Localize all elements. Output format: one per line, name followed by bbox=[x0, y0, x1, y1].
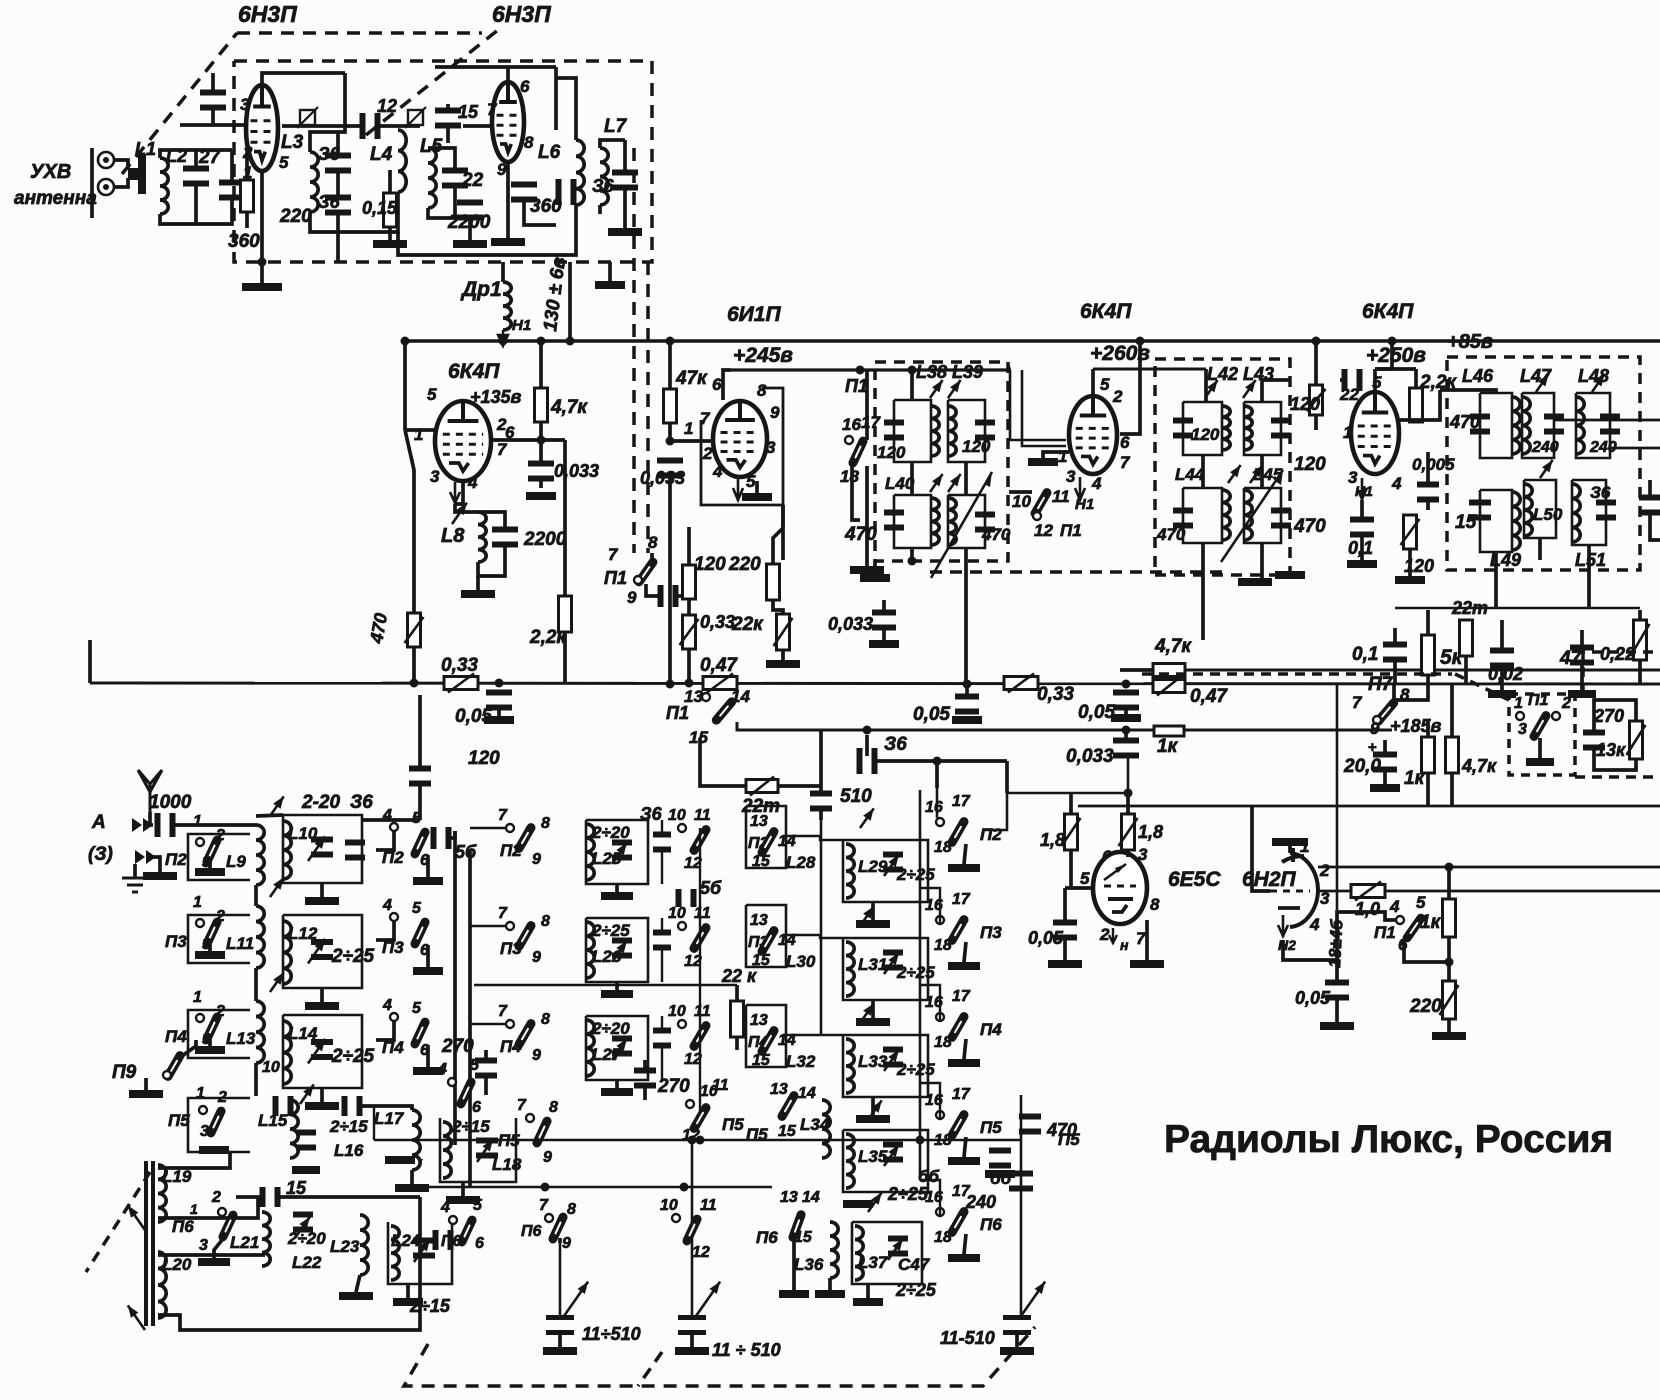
switch r6 group1 bbox=[462, 1220, 472, 1242]
wire V4 pin5 gnd bbox=[755, 481, 759, 493]
wire sw6 down bbox=[1404, 940, 1449, 962]
svg-text:20,0: 20,0 bbox=[1343, 756, 1381, 777]
trimmer L42 bbox=[1205, 380, 1218, 398]
svg-text:L23: L23 bbox=[330, 1237, 360, 1256]
svg-text:1: 1 bbox=[243, 163, 252, 182]
svg-text:15: 15 bbox=[752, 1052, 771, 1069]
svg-text:8: 8 bbox=[541, 913, 550, 930]
tank C5 loop bbox=[1524, 480, 1556, 538]
junction 0033 bus bbox=[666, 680, 675, 689]
ground V5 pin1 bbox=[1028, 458, 1058, 466]
trimmer L39 bbox=[948, 380, 961, 398]
trimmer capacitor C47 bbox=[888, 1236, 908, 1257]
wire 47k det up bbox=[1450, 684, 1454, 737]
screen trimmer square 2 bbox=[408, 110, 423, 125]
svg-text:16: 16 bbox=[842, 415, 861, 434]
capacitor L2 tune bbox=[183, 166, 209, 187]
svg-text:8: 8 bbox=[567, 1201, 576, 1218]
svg-text:1: 1 bbox=[1343, 423, 1352, 442]
wire det out2 bbox=[1594, 700, 1636, 735]
switch r4 colA bbox=[461, 1082, 471, 1104]
wire L7cap2 bbox=[623, 185, 627, 228]
resistor 0,33 a bbox=[444, 674, 478, 693]
svg-text:0,02: 0,02 bbox=[1488, 664, 1523, 684]
trimmer capacitor L35 bbox=[883, 1142, 903, 1163]
contact P1d 2 bbox=[1552, 712, 1560, 720]
junction agc bbox=[933, 757, 942, 766]
contact 4 П3 bbox=[390, 913, 398, 921]
trimmer arrow C47 bbox=[888, 1239, 903, 1260]
wire 120 v6 d bbox=[1408, 549, 1412, 576]
wire 22k gnd bbox=[781, 650, 785, 660]
wire tankA4 down long bbox=[964, 548, 968, 684]
trimmer L13 bbox=[270, 972, 284, 992]
wire boxC exit right 1 bbox=[1554, 419, 1660, 422]
svg-text:0,05: 0,05 bbox=[1028, 928, 1064, 948]
switch П4 bbox=[207, 1017, 217, 1039]
svg-text:1: 1 bbox=[193, 989, 202, 1006]
capacitor 12 coupling bbox=[360, 113, 381, 139]
svg-text:П1: П1 bbox=[1528, 692, 1549, 709]
capacitor tank C6 bbox=[1596, 500, 1616, 521]
capacitor 0,05 a bbox=[486, 690, 512, 711]
magic eye arrow bbox=[1104, 864, 1126, 880]
wire col3 vertical bus bbox=[820, 812, 823, 1035]
svg-text:2÷20: 2÷20 bbox=[591, 1019, 630, 1038]
svg-text:120: 120 bbox=[1290, 394, 1320, 414]
ground osc cap bbox=[869, 640, 899, 648]
svg-text:13: 13 bbox=[750, 912, 768, 929]
svg-text:2-20: 2-20 bbox=[301, 792, 340, 813]
svg-text:антенна: антенна bbox=[14, 188, 97, 209]
svg-text:0,05: 0,05 bbox=[1295, 988, 1331, 1008]
ground c4 П3 bbox=[948, 962, 980, 970]
trimmer capacitor L22 bbox=[293, 1212, 313, 1233]
ground 220 bbox=[1432, 1032, 1466, 1040]
svg-text:17: 17 bbox=[952, 793, 971, 810]
wire cap27 v2 bbox=[194, 181, 198, 224]
tube V8 cathode bbox=[1278, 906, 1300, 910]
svg-text:15: 15 bbox=[778, 1123, 797, 1140]
svg-text:Др1: Др1 bbox=[460, 278, 502, 301]
svg-text:2÷25: 2÷25 bbox=[331, 1046, 375, 1067]
inductor L25 bbox=[586, 824, 594, 880]
contact10 П4 bbox=[678, 1020, 686, 1028]
capacitor 0,05 V7 bbox=[1053, 920, 1077, 941]
inductor L12 bbox=[283, 921, 291, 984]
junction rail x570 bbox=[566, 337, 575, 346]
wire L51 down bbox=[1587, 545, 1591, 608]
wire V8 top bbox=[1288, 846, 1292, 853]
wire box-tank L28 bbox=[786, 836, 843, 840]
wire c4 gnd П5 bbox=[964, 1137, 966, 1157]
svg-text:470: 470 bbox=[981, 525, 1011, 544]
svg-text:4: 4 bbox=[1091, 474, 1102, 493]
tube V4 6I1P bbox=[713, 401, 767, 477]
wire anode cap low bbox=[211, 106, 215, 125]
wire cap12 to L4 bbox=[380, 124, 420, 128]
svg-text:270: 270 bbox=[441, 1036, 474, 1057]
svg-text:П9: П9 bbox=[112, 1062, 137, 1083]
wire long y867 bbox=[1318, 866, 1660, 869]
capacitor P1a link bbox=[658, 585, 679, 607]
tube V2 6N3P triode b bbox=[492, 82, 524, 162]
svg-text:L7: L7 bbox=[604, 116, 628, 137]
wire dr1 top bbox=[501, 262, 505, 282]
capacitor right L26 bbox=[653, 930, 671, 951]
inductor L39 bbox=[948, 406, 956, 456]
capacitor right L27 bbox=[653, 1028, 671, 1049]
wire 56 link bbox=[446, 831, 455, 838]
inductor L47 bbox=[1522, 397, 1530, 454]
screen trimmer square 1 bbox=[300, 110, 315, 125]
cathode arrow V3 bbox=[450, 482, 460, 504]
svg-text:5: 5 bbox=[470, 1057, 480, 1074]
svg-text:П1: П1 bbox=[666, 703, 689, 723]
wire B4 down gnd bbox=[1260, 543, 1264, 578]
svg-text:L8: L8 bbox=[441, 525, 465, 547]
wire L24 gnd bbox=[406, 1284, 410, 1298]
wire P1a to 120 bbox=[676, 594, 689, 598]
trimmer arrow L18 bbox=[477, 1139, 493, 1162]
ground P6L bbox=[198, 1258, 230, 1266]
wire 47k det down bbox=[1450, 773, 1454, 806]
IF transformer II dashed box bbox=[1155, 359, 1290, 575]
wire sw horizontal bbox=[1009, 490, 1032, 494]
resistor 22k osc bbox=[774, 614, 793, 650]
switch P9 bbox=[168, 1056, 180, 1077]
inductor L2 bbox=[160, 158, 168, 214]
wire cap27 v bbox=[194, 150, 198, 171]
wire capr2 L27 bbox=[661, 1043, 663, 1080]
wire long vertical x920 bbox=[919, 790, 922, 1180]
contact1 P5L bbox=[199, 1106, 207, 1114]
wire V8 pin2 bbox=[1318, 890, 1660, 893]
wire c4 16 up П5 bbox=[920, 1083, 940, 1119]
trimmer arrow L22 bbox=[295, 1217, 310, 1238]
wire V2 down bbox=[554, 67, 558, 130]
svg-text:6К4П: 6К4П bbox=[1362, 300, 1414, 323]
contact P9 bbox=[163, 1071, 171, 1079]
coax b bbox=[1022, 370, 1066, 446]
junction 47k grid bbox=[666, 437, 675, 446]
svg-text:7: 7 bbox=[498, 1003, 508, 1020]
svg-text:2÷20: 2÷20 bbox=[287, 1229, 326, 1248]
wire long y806 bbox=[1078, 805, 1660, 808]
wire L8 top bbox=[455, 504, 478, 512]
svg-text:1,8: 1,8 bbox=[1040, 830, 1065, 850]
coax a bbox=[1010, 370, 1066, 440]
wire V5 pin1 gnd bbox=[1043, 452, 1069, 458]
svg-text:4: 4 bbox=[382, 897, 392, 914]
capacitor 15 C bbox=[1469, 500, 1491, 521]
ground antenna z bbox=[122, 878, 148, 892]
wire sw right up П4 bbox=[376, 1021, 394, 1040]
contact16 П6 bbox=[936, 1208, 944, 1216]
wire 0005 d bbox=[1426, 497, 1430, 510]
wire capr2 L25 bbox=[661, 847, 663, 884]
wire c4 gnd П3 bbox=[964, 942, 966, 962]
svg-text:6Н3П: 6Н3П bbox=[238, 1, 297, 27]
svg-text:1к: 1к bbox=[1157, 736, 1179, 757]
wire L17 gnd bbox=[410, 1170, 414, 1184]
variable capacitor gang 11÷510 bbox=[546, 1315, 574, 1335]
inductor L35 bbox=[846, 1134, 854, 1188]
UKV block dashed diagonal middle bbox=[366, 30, 498, 135]
svg-text:14: 14 bbox=[798, 1085, 816, 1102]
trimmer arrow L33 bbox=[884, 1050, 899, 1071]
trimmer arrow L14 bbox=[308, 1039, 325, 1064]
gang arrow 11÷510 bbox=[564, 1282, 588, 1316]
svg-text:11: 11 bbox=[694, 905, 711, 922]
svg-text:П5: П5 bbox=[498, 1131, 520, 1150]
svg-text:4: 4 bbox=[1309, 915, 1320, 934]
svg-text:П1: П1 bbox=[1374, 923, 1396, 942]
wire grid line mid bbox=[282, 124, 360, 128]
svg-text:9: 9 bbox=[770, 403, 780, 422]
wire right edge a bbox=[1648, 480, 1652, 500]
wire main +245 rail bbox=[405, 339, 1660, 342]
svg-text:П7: П7 bbox=[1368, 674, 1394, 695]
tube V5 6K4P bbox=[1069, 396, 1117, 474]
wire L8 cap bot bbox=[478, 543, 505, 576]
contact4 P6r6 bbox=[449, 1216, 457, 1224]
wire L6 top bbox=[556, 78, 576, 140]
junction boxA gnd bbox=[908, 557, 917, 566]
svg-text:П2: П2 bbox=[165, 850, 187, 869]
svg-text:+185в: +185в bbox=[1390, 716, 1442, 736]
ground gang 11-510 bbox=[1000, 1347, 1034, 1355]
svg-text:0,05: 0,05 bbox=[1078, 702, 1115, 723]
svg-text:5б: 5б bbox=[700, 878, 722, 898]
wire 033 down bbox=[687, 649, 691, 683]
resistor 120 V6 bbox=[1401, 515, 1420, 549]
wire cap15 bbox=[446, 104, 450, 113]
junction 1,8b bbox=[1124, 789, 1133, 798]
svg-text:470: 470 bbox=[844, 524, 877, 545]
wire agc loop right bbox=[985, 763, 1007, 830]
svg-text:240: 240 bbox=[1531, 439, 1559, 456]
svg-text:1: 1 bbox=[684, 419, 693, 438]
wire L19 tap bbox=[158, 1152, 230, 1168]
wire capr L27 bbox=[661, 1016, 663, 1033]
capacitor 0,02 bbox=[1490, 648, 1514, 669]
wire box row L11 bbox=[188, 915, 250, 963]
ground P5L bbox=[199, 1146, 229, 1154]
UKV block dashed box bbox=[234, 61, 652, 262]
wire sw right П3 bbox=[426, 945, 430, 967]
wire V8 cath net bbox=[1283, 935, 1337, 960]
svg-text:120: 120 bbox=[877, 443, 906, 462]
svg-text:4: 4 bbox=[1391, 474, 1402, 493]
svg-text:8: 8 bbox=[524, 133, 534, 152]
svg-text:П2: П2 bbox=[980, 825, 1002, 844]
contact P7 bbox=[1373, 716, 1381, 724]
svg-text:L31: L31 bbox=[858, 955, 887, 974]
ground det row b bbox=[1568, 690, 1596, 698]
inductor L42 bbox=[1222, 406, 1230, 450]
wire P9 bbox=[182, 1040, 196, 1056]
wire V4 anode down bbox=[781, 505, 785, 560]
inductor L5 bbox=[428, 148, 436, 208]
svg-text:22: 22 bbox=[461, 170, 484, 191]
contact P1d 1 bbox=[1516, 712, 1524, 720]
inductor L18c bbox=[443, 1122, 451, 1178]
svg-text:6И1П: 6И1П bbox=[727, 303, 781, 326]
svg-text:8: 8 bbox=[549, 1099, 558, 1116]
svg-text:1: 1 bbox=[1514, 695, 1523, 712]
wire box P5L bbox=[188, 1098, 250, 1152]
svg-text:17: 17 bbox=[861, 413, 881, 432]
tank loop L26 bbox=[586, 918, 648, 982]
wire V7 left down bbox=[1063, 888, 1067, 922]
svg-text:5: 5 bbox=[412, 1000, 422, 1017]
switch P1 dashed box bbox=[1509, 694, 1575, 775]
ground L16 bbox=[292, 1166, 320, 1174]
band switch dashed outline bbox=[404, 1327, 1035, 1386]
wire bus upper right bbox=[1185, 669, 1660, 672]
ground UKV bbox=[242, 283, 282, 291]
svg-text:9: 9 bbox=[627, 588, 637, 607]
ground c3 P6 a bbox=[779, 1290, 809, 1298]
svg-text:L28: L28 bbox=[786, 853, 816, 872]
svg-text:4,7к: 4,7к bbox=[1154, 636, 1192, 657]
wire gnd П2 bbox=[208, 859, 212, 868]
IF transformer III dashed box bbox=[1447, 357, 1640, 570]
wire L4 bot bbox=[338, 192, 398, 232]
capacitor tank B2 bbox=[1271, 418, 1291, 439]
svg-text:0,33: 0,33 bbox=[1037, 684, 1074, 705]
svg-text:2200: 2200 bbox=[523, 529, 567, 550]
resistor 4,7k det bbox=[1446, 737, 1459, 773]
wire capr L25 bbox=[661, 820, 663, 837]
tank loop L12 bbox=[283, 915, 362, 988]
trimmer capacitor L24 bbox=[413, 1238, 435, 1259]
svg-text:1: 1 bbox=[196, 1085, 205, 1102]
wire bus upper bbox=[1120, 668, 1152, 672]
svg-text:L1: L1 bbox=[135, 139, 156, 159]
wire box-tank L32 bbox=[786, 1034, 843, 1036]
wire 022 d bbox=[1638, 660, 1642, 684]
capacitor 0,033 V3 bbox=[528, 461, 554, 482]
trimmer top L37 bbox=[868, 1192, 882, 1212]
svg-text:0,47: 0,47 bbox=[700, 655, 738, 676]
wire tank gnd L26 bbox=[615, 982, 619, 990]
wire coil column3 bbox=[254, 1063, 258, 1096]
svg-text:11÷510: 11÷510 bbox=[582, 1324, 641, 1344]
svg-text:15: 15 bbox=[794, 1229, 813, 1246]
switch box L30 bbox=[746, 905, 786, 967]
ground П2 bbox=[195, 868, 225, 876]
svg-text:12: 12 bbox=[377, 96, 397, 116]
junction bus 689 bbox=[685, 679, 694, 688]
tank B3 loop bbox=[1183, 488, 1222, 543]
capacitor 270 b bbox=[634, 1068, 656, 1089]
wire bus1 0,33 row bbox=[90, 683, 1660, 684]
capacitor 56 row2 bbox=[676, 889, 697, 907]
wire 120agc down bbox=[1314, 415, 1318, 430]
svg-text:П2: П2 bbox=[500, 841, 522, 860]
inductor L37 bbox=[855, 1226, 863, 1280]
trimmer top L29 bbox=[860, 808, 874, 828]
capacitor 22 coupling V6 bbox=[1342, 369, 1363, 391]
svg-text:7: 7 bbox=[608, 545, 619, 564]
wire ts1 d bbox=[1393, 658, 1397, 684]
wire v8 grid in bbox=[1252, 806, 1270, 891]
svg-text:L13: L13 bbox=[226, 1029, 256, 1048]
capacitor 510 bbox=[810, 791, 832, 812]
IF transformer I dashed box bbox=[875, 362, 1008, 561]
svg-text:3: 3 bbox=[1518, 721, 1527, 738]
wire L49 down bbox=[1494, 552, 1498, 608]
wire 200 down bbox=[1383, 768, 1387, 784]
svg-text:4: 4 bbox=[382, 807, 392, 824]
wire V1 grid left bbox=[180, 123, 246, 127]
wire 47k top bbox=[668, 341, 672, 389]
wire V2 top bbox=[435, 65, 556, 69]
capacitor 36 L7 bbox=[612, 170, 638, 191]
inductor L38 bbox=[931, 406, 939, 456]
capacitor link r4 bbox=[273, 1096, 294, 1116]
wire tankg L33 bbox=[871, 1097, 875, 1115]
junction +260 bbox=[1136, 337, 1145, 346]
svg-text:9: 9 bbox=[497, 160, 507, 179]
trimmer capacitor L18 bbox=[476, 1138, 498, 1159]
wire cap 033 down bbox=[539, 477, 543, 488]
tank C4 loop bbox=[1480, 490, 1512, 552]
inductor L43 bbox=[1244, 406, 1252, 450]
trimmer arrow L24 bbox=[414, 1239, 430, 1262]
tank B1 loop bbox=[1183, 402, 1222, 455]
inductor L44 bbox=[1222, 490, 1230, 540]
svg-text:18: 18 bbox=[934, 1034, 952, 1051]
coax top a bbox=[1008, 364, 1010, 370]
inductor L20 bbox=[158, 1252, 166, 1318]
wire right edge b bbox=[1650, 510, 1660, 540]
dashed diag P9 bbox=[86, 1172, 150, 1272]
svg-text:1,8: 1,8 bbox=[1138, 822, 1163, 842]
inductor L19 bbox=[158, 1165, 166, 1222]
capacitor 56 link bbox=[431, 827, 452, 849]
capacitor anode top bbox=[200, 90, 226, 111]
svg-text:2: 2 bbox=[1561, 695, 1571, 712]
wire agc loop left bbox=[936, 763, 939, 818]
wire tankA1 down bbox=[910, 462, 914, 495]
svg-text:0,05: 0,05 bbox=[913, 704, 950, 725]
wire gnd П3 bbox=[208, 941, 212, 951]
junction y1140 a bbox=[696, 1136, 705, 1145]
tank loop L33 bbox=[843, 1035, 928, 1097]
resistor 120 agc B bbox=[1307, 385, 1326, 415]
wire tank right bbox=[336, 132, 340, 158]
contact7 П4 bbox=[506, 1020, 514, 1028]
switch c3 П4 bbox=[762, 1031, 774, 1052]
variable capacitor gang 11 ÷ 510 bbox=[678, 1315, 706, 1335]
gang arrow 11-510 bbox=[1021, 1282, 1045, 1316]
ground Z bbox=[143, 872, 177, 880]
tank loop L31 bbox=[843, 938, 928, 1000]
svg-text:3: 3 bbox=[200, 1123, 209, 1140]
svg-text:6: 6 bbox=[1120, 433, 1130, 452]
capacitor bb row4 bbox=[989, 1148, 1011, 1169]
svg-text:10: 10 bbox=[660, 1197, 678, 1214]
cathode arrow V5 bbox=[1075, 477, 1085, 501]
wire 005 v8 bbox=[1335, 960, 1339, 985]
svg-text:7: 7 bbox=[1352, 693, 1363, 712]
svg-text:L38 L39: L38 L39 bbox=[916, 362, 983, 382]
wire 47k bot bbox=[668, 423, 672, 441]
wire c4 gnd П4 bbox=[964, 1039, 966, 1059]
